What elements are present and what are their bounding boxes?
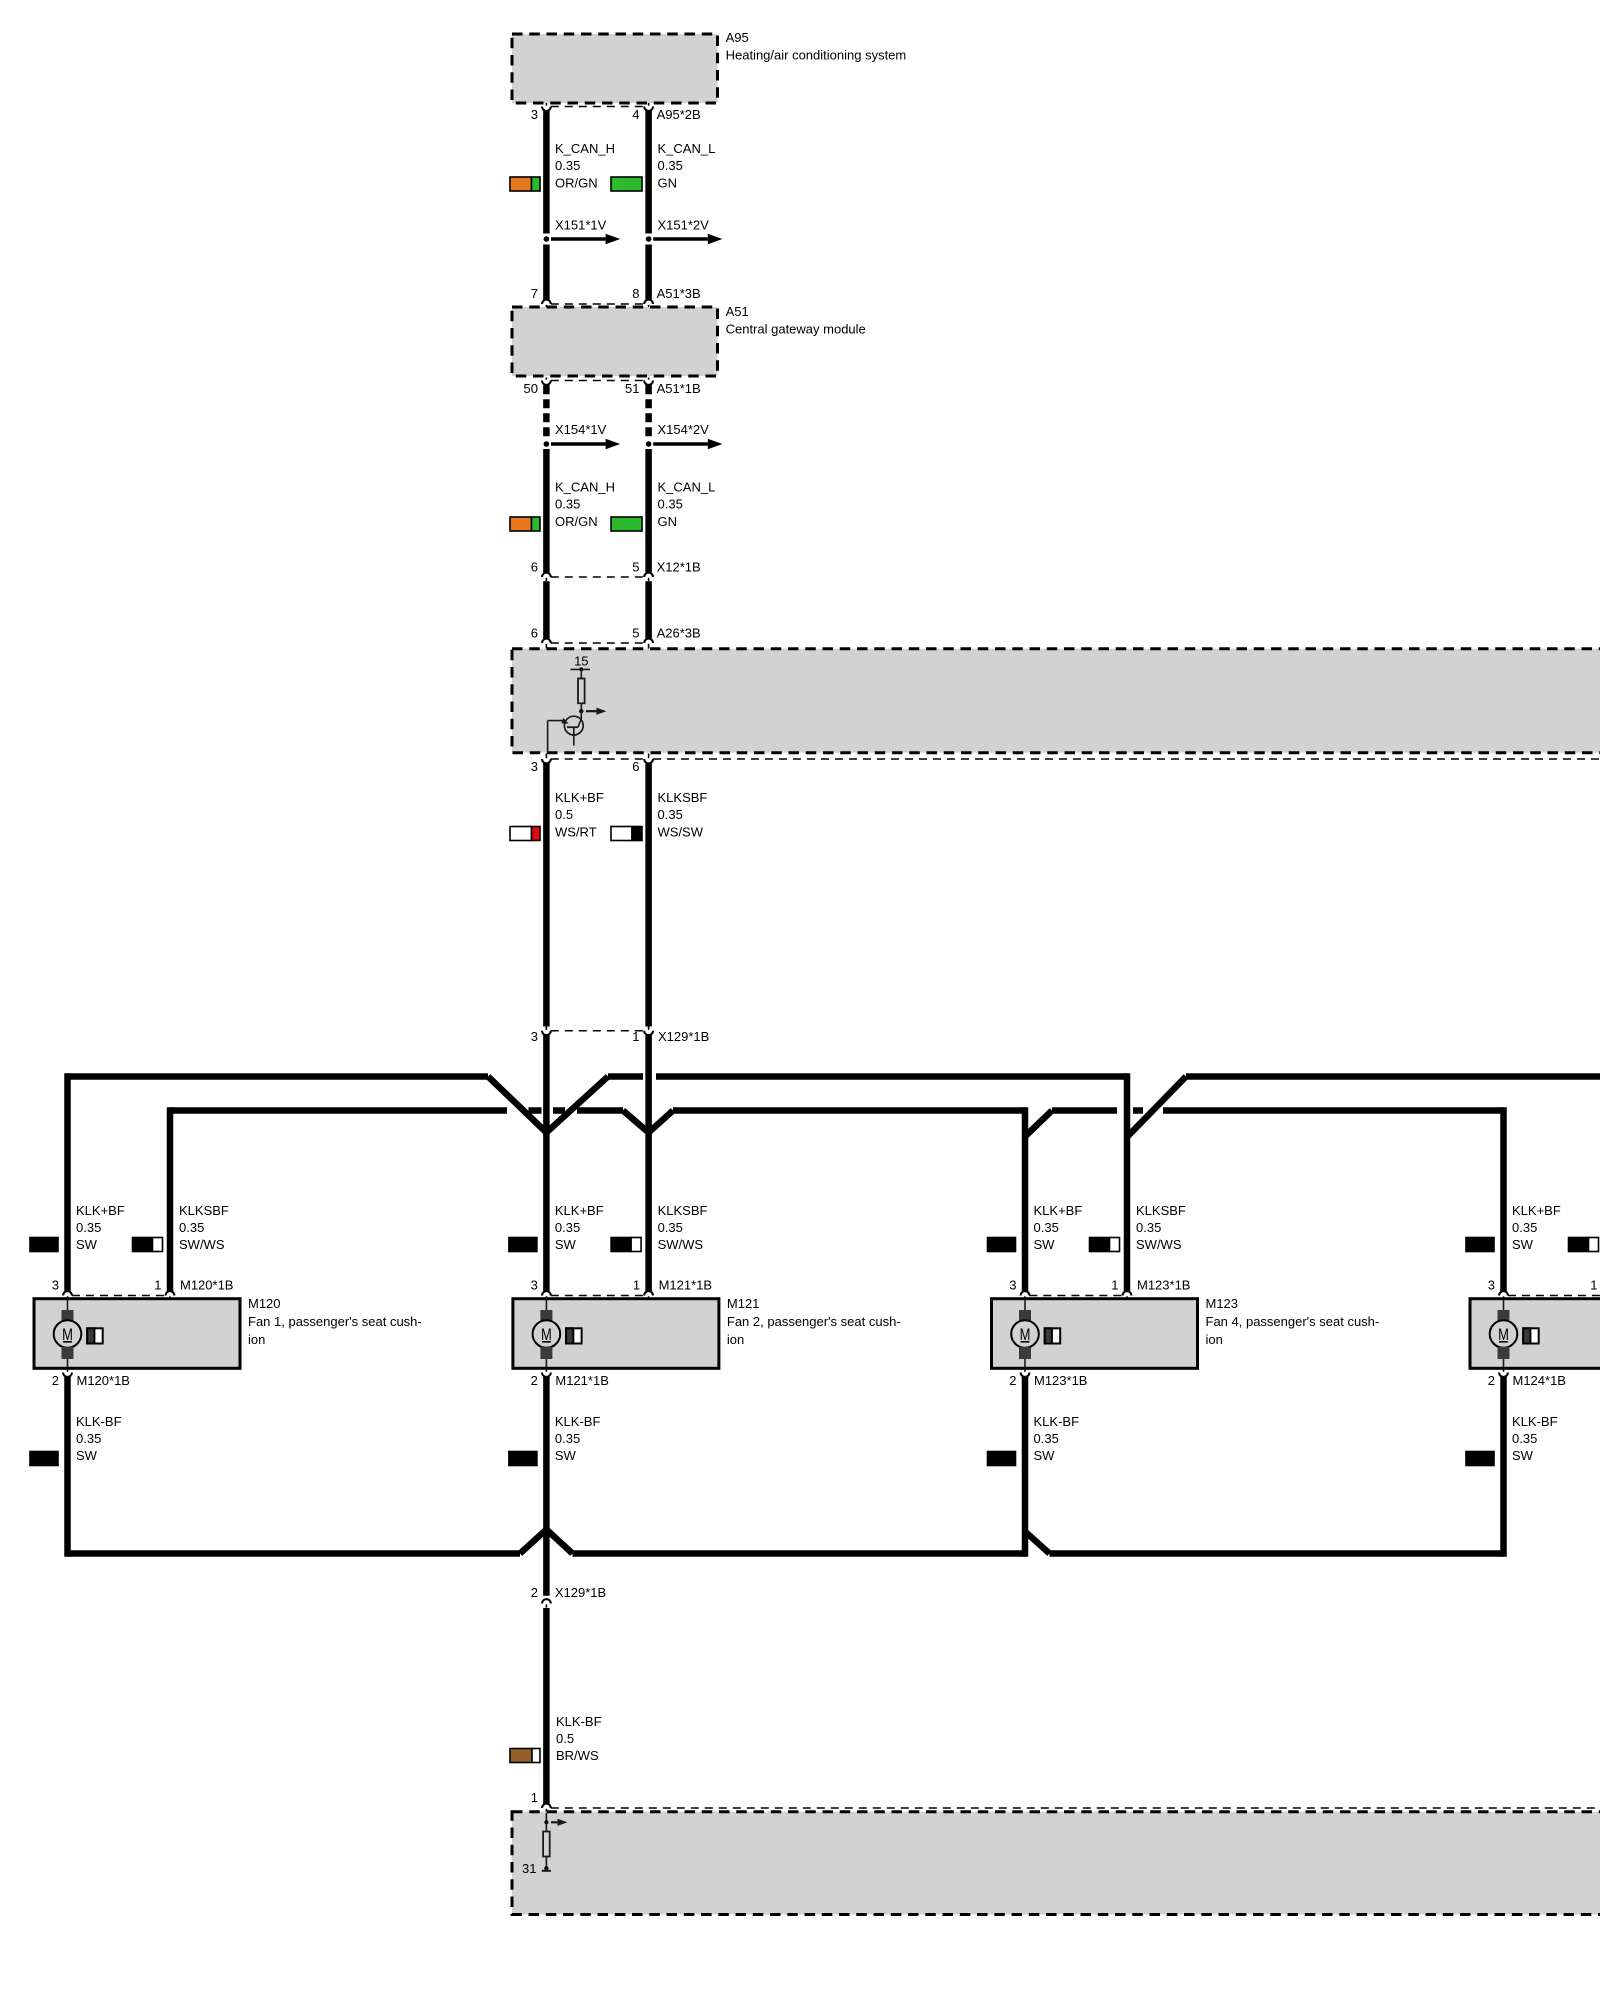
svg-text:Fan 1, passenger's seat cush-: Fan 1, passenger's seat cush-	[248, 1314, 422, 1329]
svg-text:K_CAN_H: K_CAN_H	[555, 480, 615, 495]
transistor collector diagonal	[578, 719, 581, 727]
svg-text:SW: SW	[76, 1237, 98, 1252]
motor M120 circle	[54, 1320, 82, 1348]
connector A51*3B thin dashed line	[551, 303, 644, 305]
connector A51*3B pin 8	[644, 300, 653, 304]
svg-text:M120*1B: M120*1B	[180, 1278, 233, 1293]
svg-text:ion: ion	[727, 1332, 744, 1347]
connector M123*1B pin 2	[1021, 1373, 1030, 1377]
svg-text:0.35: 0.35	[555, 1431, 580, 1446]
node X154*1V junction and arrow	[544, 441, 550, 447]
wire fan M121 pin 2 drop through tent to X129 pin 2	[543, 1377, 550, 1596]
svg-text:KLK+BF: KLK+BF	[1512, 1203, 1561, 1218]
svg-text:KLKSBF: KLKSBF	[658, 790, 708, 805]
wire K_CAN_H lower segment to A51 pin 7	[543, 245, 550, 300]
svg-text:1: 1	[632, 1029, 639, 1044]
svg-text:5: 5	[632, 626, 639, 641]
wire KLK-BF from X129 pin 2 to ground unit	[543, 1608, 550, 1804]
wire A26 internal to pin 3	[547, 721, 549, 753]
bus KLK-BF diagonal at M123 junction	[1025, 1532, 1050, 1554]
svg-text:SW: SW	[1034, 1448, 1056, 1463]
bus KLK-BF segment to M124 corner	[1050, 1550, 1504, 1557]
wire fan M123 pin 2 drop	[1022, 1377, 1029, 1557]
connector A51*3B pin 7	[542, 300, 551, 304]
wire fan M120 pin 3 riser	[64, 1073, 71, 1291]
svg-text:ion: ion	[1206, 1332, 1223, 1347]
svg-text:X154*2V: X154*2V	[658, 422, 710, 437]
wire junction down to fan M123 pin 3	[1022, 1137, 1029, 1292]
svg-text:M123*1B: M123*1B	[1034, 1373, 1087, 1388]
connector M124*1B pin 3	[1499, 1291, 1508, 1295]
wire K_CAN_L lower segment to A51 pin 8	[645, 245, 652, 300]
ground unit connector thin dashed line	[551, 1807, 1600, 1809]
colour swatch SW (KLK+BF fan4)	[1466, 1238, 1494, 1252]
wire K_CAN_H from A95 pin 3 (upper segment)	[543, 111, 550, 234]
motor M123 brush top	[1019, 1310, 1031, 1321]
colour swatch OR/GN	[510, 177, 532, 191]
svg-text:1: 1	[633, 1278, 640, 1293]
svg-text:A95: A95	[726, 30, 749, 45]
wire terminal 15 to fuse	[580, 669, 582, 678]
motor symbol M123 internal wiring	[1024, 1300, 1026, 1310]
motor M124 circle	[1490, 1320, 1518, 1348]
svg-text:3: 3	[531, 1278, 538, 1293]
colour swatch SW (KLK+BF fan2)	[509, 1238, 537, 1252]
motor M121 circle	[533, 1320, 561, 1348]
bus drop to junction above fan M123 pin 3	[1025, 1107, 1052, 1136]
colour swatch SW/WS (KLKSBF fan2)	[611, 1238, 631, 1252]
svg-text:0.35: 0.35	[1512, 1220, 1537, 1235]
svg-text:M123*1B: M123*1B	[1137, 1278, 1190, 1293]
motor M123 connector symbol	[1045, 1328, 1061, 1343]
connector M120*1B pin 2	[63, 1373, 72, 1377]
motor M124 connector symbol	[1523, 1328, 1539, 1343]
bus KLK-BF tent junction at wire 2	[520, 1530, 573, 1554]
svg-text:0.5: 0.5	[555, 807, 573, 822]
svg-text:Heating/air conditioning syste: Heating/air conditioning system	[726, 48, 907, 63]
svg-text:Central gateway module: Central gateway module	[726, 322, 866, 337]
motor M121 brush top	[540, 1310, 552, 1321]
motor M124 brush top	[1498, 1310, 1510, 1321]
svg-text:KLK+BF: KLK+BF	[555, 790, 604, 805]
svg-text:M121*1B: M121*1B	[555, 1373, 608, 1388]
ground distribution arrow	[551, 1821, 558, 1823]
control unit A51 (central gateway module) box	[512, 307, 718, 376]
fan motor M124 box	[1470, 1299, 1600, 1369]
svg-text:31: 31	[522, 1861, 536, 1876]
svg-text:KLKSBF: KLKSBF	[179, 1203, 229, 1218]
svg-text:SW: SW	[555, 1237, 577, 1252]
bus KLK+BF segment from M120 riser	[68, 1073, 489, 1080]
connector X129*1B thin dashed line	[551, 1030, 644, 1032]
svg-text:M120: M120	[248, 1296, 281, 1311]
svg-text:A51*3B: A51*3B	[657, 286, 701, 301]
svg-text:0.35: 0.35	[1034, 1431, 1059, 1446]
wire K_CAN_L dashed segment from A51 pin 51	[645, 385, 652, 439]
fan motor M123 box	[992, 1299, 1198, 1369]
connector A51*1B thin dashed line	[551, 380, 644, 382]
motor M120 connector symbol	[87, 1328, 103, 1343]
svg-text:SW/WS: SW/WS	[658, 1237, 704, 1252]
svg-text:3: 3	[1009, 1278, 1016, 1293]
connector M121*1B pin 1	[644, 1291, 653, 1295]
svg-text:0.5: 0.5	[556, 1731, 574, 1746]
svg-text:3: 3	[1488, 1278, 1495, 1293]
svg-text:K_CAN_L: K_CAN_L	[658, 480, 716, 495]
svg-text:KLK+BF: KLK+BF	[555, 1203, 604, 1218]
connector M123*1B pin 3	[1021, 1291, 1030, 1295]
svg-text:SW: SW	[76, 1448, 98, 1463]
svg-text:X154*1V: X154*1V	[555, 422, 607, 437]
svg-text:50: 50	[524, 381, 538, 396]
colour swatch WS/RT	[510, 827, 532, 841]
wire fan M120 pin 1 riser	[167, 1107, 174, 1291]
wire K_CAN_H from X154*1V to X12 pin 6	[543, 449, 550, 573]
wire fan M124 pin 2 drop	[1500, 1377, 1507, 1557]
connector A26*3B pin 5	[644, 639, 653, 643]
svg-text:7: 7	[531, 286, 538, 301]
svg-text:1: 1	[1111, 1278, 1118, 1293]
connector X12*1B pin 6	[542, 573, 551, 577]
svg-text:2: 2	[531, 1585, 538, 1600]
svg-text:KLKSBF: KLKSBF	[1136, 1203, 1186, 1218]
motor M123 brush bottom	[1019, 1347, 1031, 1359]
svg-text:A95*2B: A95*2B	[657, 107, 701, 122]
connector A26 pin 3	[542, 759, 551, 763]
svg-text:GN: GN	[658, 514, 678, 529]
fan motor M120 box	[34, 1299, 240, 1369]
connector A95*2B pin 3	[542, 107, 551, 111]
svg-text:KLK-BF: KLK-BF	[555, 1414, 601, 1429]
connector A26*3B pin 6	[542, 639, 551, 643]
colour swatch SW (KLK+BF fan1)	[30, 1238, 58, 1252]
svg-text:2: 2	[1009, 1373, 1016, 1388]
svg-text:8: 8	[632, 286, 639, 301]
bus KLK+BF segment before crossing wire 1	[608, 1073, 643, 1080]
motor M124 brush bottom	[1498, 1347, 1510, 1359]
svg-text:BR/WS: BR/WS	[556, 1748, 599, 1763]
svg-text:SW: SW	[1512, 1237, 1534, 1252]
svg-text:51: 51	[625, 381, 639, 396]
svg-text:KLK+BF: KLK+BF	[1034, 1203, 1083, 1218]
svg-text:0.35: 0.35	[555, 158, 580, 173]
svg-text:X151*2V: X151*2V	[658, 218, 710, 233]
svg-text:M: M	[62, 1325, 73, 1344]
wire K_CAN_L from A95 pin 4 (upper segment)	[645, 111, 652, 234]
connector M123*1B top thin dashed line	[1029, 1295, 1122, 1297]
bus KLKSBF segment after crossings	[577, 1107, 623, 1114]
svg-text:0.35: 0.35	[555, 1220, 580, 1235]
svg-text:3: 3	[531, 107, 538, 122]
colour swatch SW (KLK-BF fan4)	[1466, 1452, 1494, 1466]
svg-text:A51: A51	[726, 304, 749, 319]
svg-text:K_CAN_H: K_CAN_H	[555, 141, 615, 156]
resistor in ground unit	[543, 1832, 550, 1857]
terminal 15 crossbar	[571, 668, 591, 670]
svg-text:ion: ion	[248, 1332, 265, 1347]
colour swatch OR/GN (lower)	[510, 517, 532, 531]
svg-text:0.35: 0.35	[76, 1431, 101, 1446]
bus KLK+BF diagonal down to junction at wire 3	[488, 1077, 608, 1133]
svg-text:0.35: 0.35	[658, 1220, 683, 1235]
bus KLKSBF V junction at wire 2	[623, 1111, 673, 1133]
svg-text:X129*1B: X129*1B	[555, 1585, 606, 1600]
bus KLKSBF segment to fan M124 pin 3 corner	[1163, 1107, 1504, 1114]
node ground distribution dot	[544, 1820, 548, 1824]
connector A95*2B pin 4	[644, 107, 653, 111]
svg-text:0.35: 0.35	[555, 497, 580, 512]
colour swatch SW (KLK-BF fan3)	[988, 1452, 1016, 1466]
svg-text:M: M	[1498, 1325, 1509, 1344]
svg-text:KLK-BF: KLK-BF	[1034, 1414, 1080, 1429]
ground unit pin 1	[542, 1804, 551, 1808]
connector M120*1B pin 3	[63, 1291, 72, 1295]
svg-text:Fan 4, passenger's seat cush-: Fan 4, passenger's seat cush-	[1206, 1314, 1380, 1329]
motor symbol M120 internal wiring	[67, 1300, 69, 1310]
svg-text:M120*1B: M120*1B	[77, 1373, 130, 1388]
wire resistor to terminal 31	[545, 1857, 547, 1869]
svg-text:Fan 2, passenger's seat cush-: Fan 2, passenger's seat cush-	[727, 1314, 901, 1329]
connector X129*1B pin 3	[542, 1031, 551, 1035]
bus KLK-BF segment from M120	[68, 1550, 521, 1557]
fuse in A26	[578, 679, 585, 704]
control unit A26 box (seat module, clipped at right edge)	[512, 649, 1600, 753]
svg-text:A26*3B: A26*3B	[657, 626, 701, 641]
fan motor M121 box	[513, 1299, 719, 1369]
connector X12*1B pin 5	[644, 573, 653, 577]
svg-text:SW: SW	[1034, 1237, 1056, 1252]
svg-text:2: 2	[52, 1373, 59, 1388]
svg-text:0.35: 0.35	[658, 807, 683, 822]
svg-text:5: 5	[632, 560, 639, 575]
connector M121*1B pin 2	[542, 1373, 551, 1377]
connector M124*1B top thin dashed line	[1508, 1295, 1600, 1297]
svg-text:0.35: 0.35	[76, 1220, 101, 1235]
svg-text:0.35: 0.35	[658, 497, 683, 512]
wire K_CAN_L from X154*2V to X12 pin 5	[645, 449, 652, 573]
svg-text:M: M	[1020, 1325, 1031, 1344]
connector M120*1B pin 1	[166, 1291, 175, 1295]
node X151*1V junction and arrow	[544, 236, 550, 242]
motor M120 brush bottom	[62, 1347, 74, 1359]
connector M121*1B pin 3	[542, 1291, 551, 1295]
bus KLKSBF segment to M123 pin 3 drop	[673, 1107, 1025, 1114]
transistor emitter arrowhead	[561, 718, 568, 724]
svg-text:3: 3	[531, 1029, 538, 1044]
svg-text:M121: M121	[727, 1296, 760, 1311]
bus KLKSBF segment before crossing M123 pin 1 wire	[1052, 1107, 1117, 1114]
transistor base bar	[567, 726, 578, 728]
connector M124*1B pin 2	[1499, 1373, 1508, 1377]
motor M120 brush top	[62, 1310, 74, 1321]
svg-text:KLK-BF: KLK-BF	[556, 1714, 602, 1729]
svg-text:SW/WS: SW/WS	[179, 1237, 225, 1252]
connector X129*1B pin 2	[542, 1599, 551, 1603]
bus KLKSBF segment from M120 riser	[170, 1107, 507, 1114]
svg-text:0.35: 0.35	[179, 1220, 204, 1235]
wire ground unit pin 1 internal	[545, 1813, 547, 1822]
svg-text:3: 3	[531, 759, 538, 774]
wire KLKSBF from A26 pin 6 to X129 pin 1	[645, 763, 652, 1026]
colour swatch WS/SW	[611, 827, 632, 841]
transistor Q1 body circle	[564, 716, 583, 735]
svg-text:M121*1B: M121*1B	[659, 1278, 712, 1293]
svg-text:X12*1B: X12*1B	[657, 560, 701, 575]
svg-text:6: 6	[632, 759, 639, 774]
colour swatch SW (KLK-BF fan1)	[30, 1452, 58, 1466]
connector M123*1B pin 1	[1123, 1291, 1132, 1295]
svg-text:0.35: 0.35	[1512, 1431, 1537, 1446]
motor symbol M124 internal wiring	[1503, 1300, 1505, 1310]
svg-text:0.35: 0.35	[1034, 1220, 1059, 1235]
svg-text:A51*1B: A51*1B	[657, 381, 701, 396]
svg-text:1: 1	[531, 1790, 538, 1805]
motor M123 circle	[1011, 1320, 1039, 1348]
connector X129*1B pin 1	[644, 1031, 653, 1035]
svg-text:SW: SW	[1512, 1448, 1534, 1463]
svg-text:KLK+BF: KLK+BF	[76, 1203, 125, 1218]
connector A26 pin 6	[644, 759, 653, 763]
colour swatch SW (KLK-BF fan2)	[509, 1452, 537, 1466]
svg-text:6: 6	[531, 626, 538, 641]
connector A95*2B thin dashed line	[551, 106, 644, 108]
motor symbol M121 internal wiring	[545, 1300, 547, 1310]
bus KLKSBF dash at crossing 1	[529, 1107, 542, 1114]
bus KLK-BF segment to M123 junction	[573, 1550, 1026, 1557]
svg-text:OR/GN: OR/GN	[555, 514, 598, 529]
svg-text:OR/GN: OR/GN	[555, 176, 598, 191]
colour swatch BR/WS	[510, 1749, 532, 1763]
svg-text:SW/WS: SW/WS	[1136, 1237, 1182, 1252]
svg-text:X129*1B: X129*1B	[658, 1029, 709, 1044]
svg-text:15: 15	[574, 653, 588, 668]
svg-text:M124*1B: M124*1B	[1513, 1373, 1566, 1388]
svg-text:KLK-BF: KLK-BF	[76, 1414, 122, 1429]
wire fan M120 pin 2 drop	[64, 1377, 71, 1557]
bus KLK+BF segment to M123 pin 1 drop	[656, 1073, 1127, 1080]
wire node to resistor	[545, 1822, 547, 1831]
motor M121 connector symbol	[566, 1328, 582, 1343]
bus KLK+BF segment to right edge	[1186, 1073, 1600, 1080]
svg-text:0.35: 0.35	[658, 158, 683, 173]
colour swatch SW/WS (KLKSBF fan3)	[1090, 1238, 1110, 1252]
wire X129 pin 1 down through junction to fan M121 pin 1	[645, 1035, 652, 1291]
svg-text:WS/SW: WS/SW	[658, 825, 704, 840]
colour swatch GN	[611, 177, 642, 191]
svg-text:KLK-BF: KLK-BF	[1512, 1414, 1558, 1429]
svg-text:6: 6	[531, 560, 538, 575]
svg-text:WS/RT: WS/RT	[555, 825, 597, 840]
transistor emitter stub	[573, 727, 575, 745]
node output junction dot	[579, 709, 583, 713]
svg-text:1: 1	[154, 1278, 161, 1293]
wire X129 pin 3 down through junction to fan M121 pin 3	[543, 1035, 550, 1291]
node X151*2V junction and arrow	[646, 236, 652, 242]
svg-text:X151*1V: X151*1V	[555, 218, 607, 233]
wire junction down to fan M123 pin 1	[1124, 1137, 1131, 1291]
svg-text:M123: M123	[1206, 1296, 1239, 1311]
ground symbol terminal 31	[542, 1870, 551, 1872]
svg-text:0.35: 0.35	[1136, 1220, 1161, 1235]
wire K_CAN_H from X12 to A26 pin 6	[543, 581, 550, 638]
svg-text:SW: SW	[555, 1448, 577, 1463]
svg-text:3: 3	[52, 1278, 59, 1293]
wire KLK+BF from A26 pin 3 to X129 pin 3	[543, 763, 550, 1026]
svg-text:M: M	[541, 1325, 552, 1344]
wire fuse to output node	[580, 703, 582, 711]
connector X12*1B thin dashed line	[551, 576, 644, 578]
connector A51*1B pin 51	[644, 381, 653, 385]
svg-text:2: 2	[531, 1373, 538, 1388]
connector M121*1B top thin dashed line	[551, 1295, 644, 1297]
svg-text:4: 4	[632, 107, 639, 122]
connector A26 bottom thin dashed line	[551, 758, 644, 760]
bus drop to junction above fan M123 pin 1	[1127, 1073, 1186, 1137]
colour swatch SW/WS (KLKSBF fan4)	[1569, 1238, 1589, 1252]
bus KLKSBF dash at crossing 2	[553, 1107, 565, 1114]
svg-text:2: 2	[1488, 1373, 1495, 1388]
motor M121 brush bottom	[540, 1347, 552, 1359]
colour swatch SW (KLK+BF fan3)	[988, 1238, 1016, 1252]
connector A51*1B pin 50	[542, 381, 551, 385]
ground unit box (clipped at right edge)	[512, 1812, 1600, 1915]
terminal 15 node dot	[579, 667, 583, 671]
colour swatch GN (lower)	[611, 517, 642, 531]
wire pin3 feed into transistor	[548, 720, 565, 722]
connector A26*3B thin dashed line	[551, 642, 644, 644]
svg-text:KLKSBF: KLKSBF	[658, 1203, 708, 1218]
terminal 31 node dot	[544, 1866, 548, 1870]
node X154*2V junction and arrow	[646, 441, 652, 447]
control unit A95 (heating/air conditioning system) box	[512, 34, 718, 103]
bus KLKSBF dash at crossing 3	[1133, 1107, 1143, 1114]
wire corner down to fan M124 pin 3	[1500, 1107, 1507, 1291]
output arrow inside A26	[586, 710, 597, 712]
connector M120*1B top thin dashed line	[72, 1295, 166, 1297]
svg-text:K_CAN_L: K_CAN_L	[658, 141, 716, 156]
svg-text:GN: GN	[658, 176, 678, 191]
svg-text:1: 1	[1590, 1278, 1597, 1293]
wire K_CAN_L from X12 to A26 pin 5	[645, 581, 652, 638]
wire output node to transistor collector	[580, 711, 582, 719]
wire K_CAN_H dashed segment from A51 pin 50	[543, 385, 550, 439]
colour swatch SW/WS (KLKSBF fan1)	[133, 1238, 153, 1252]
